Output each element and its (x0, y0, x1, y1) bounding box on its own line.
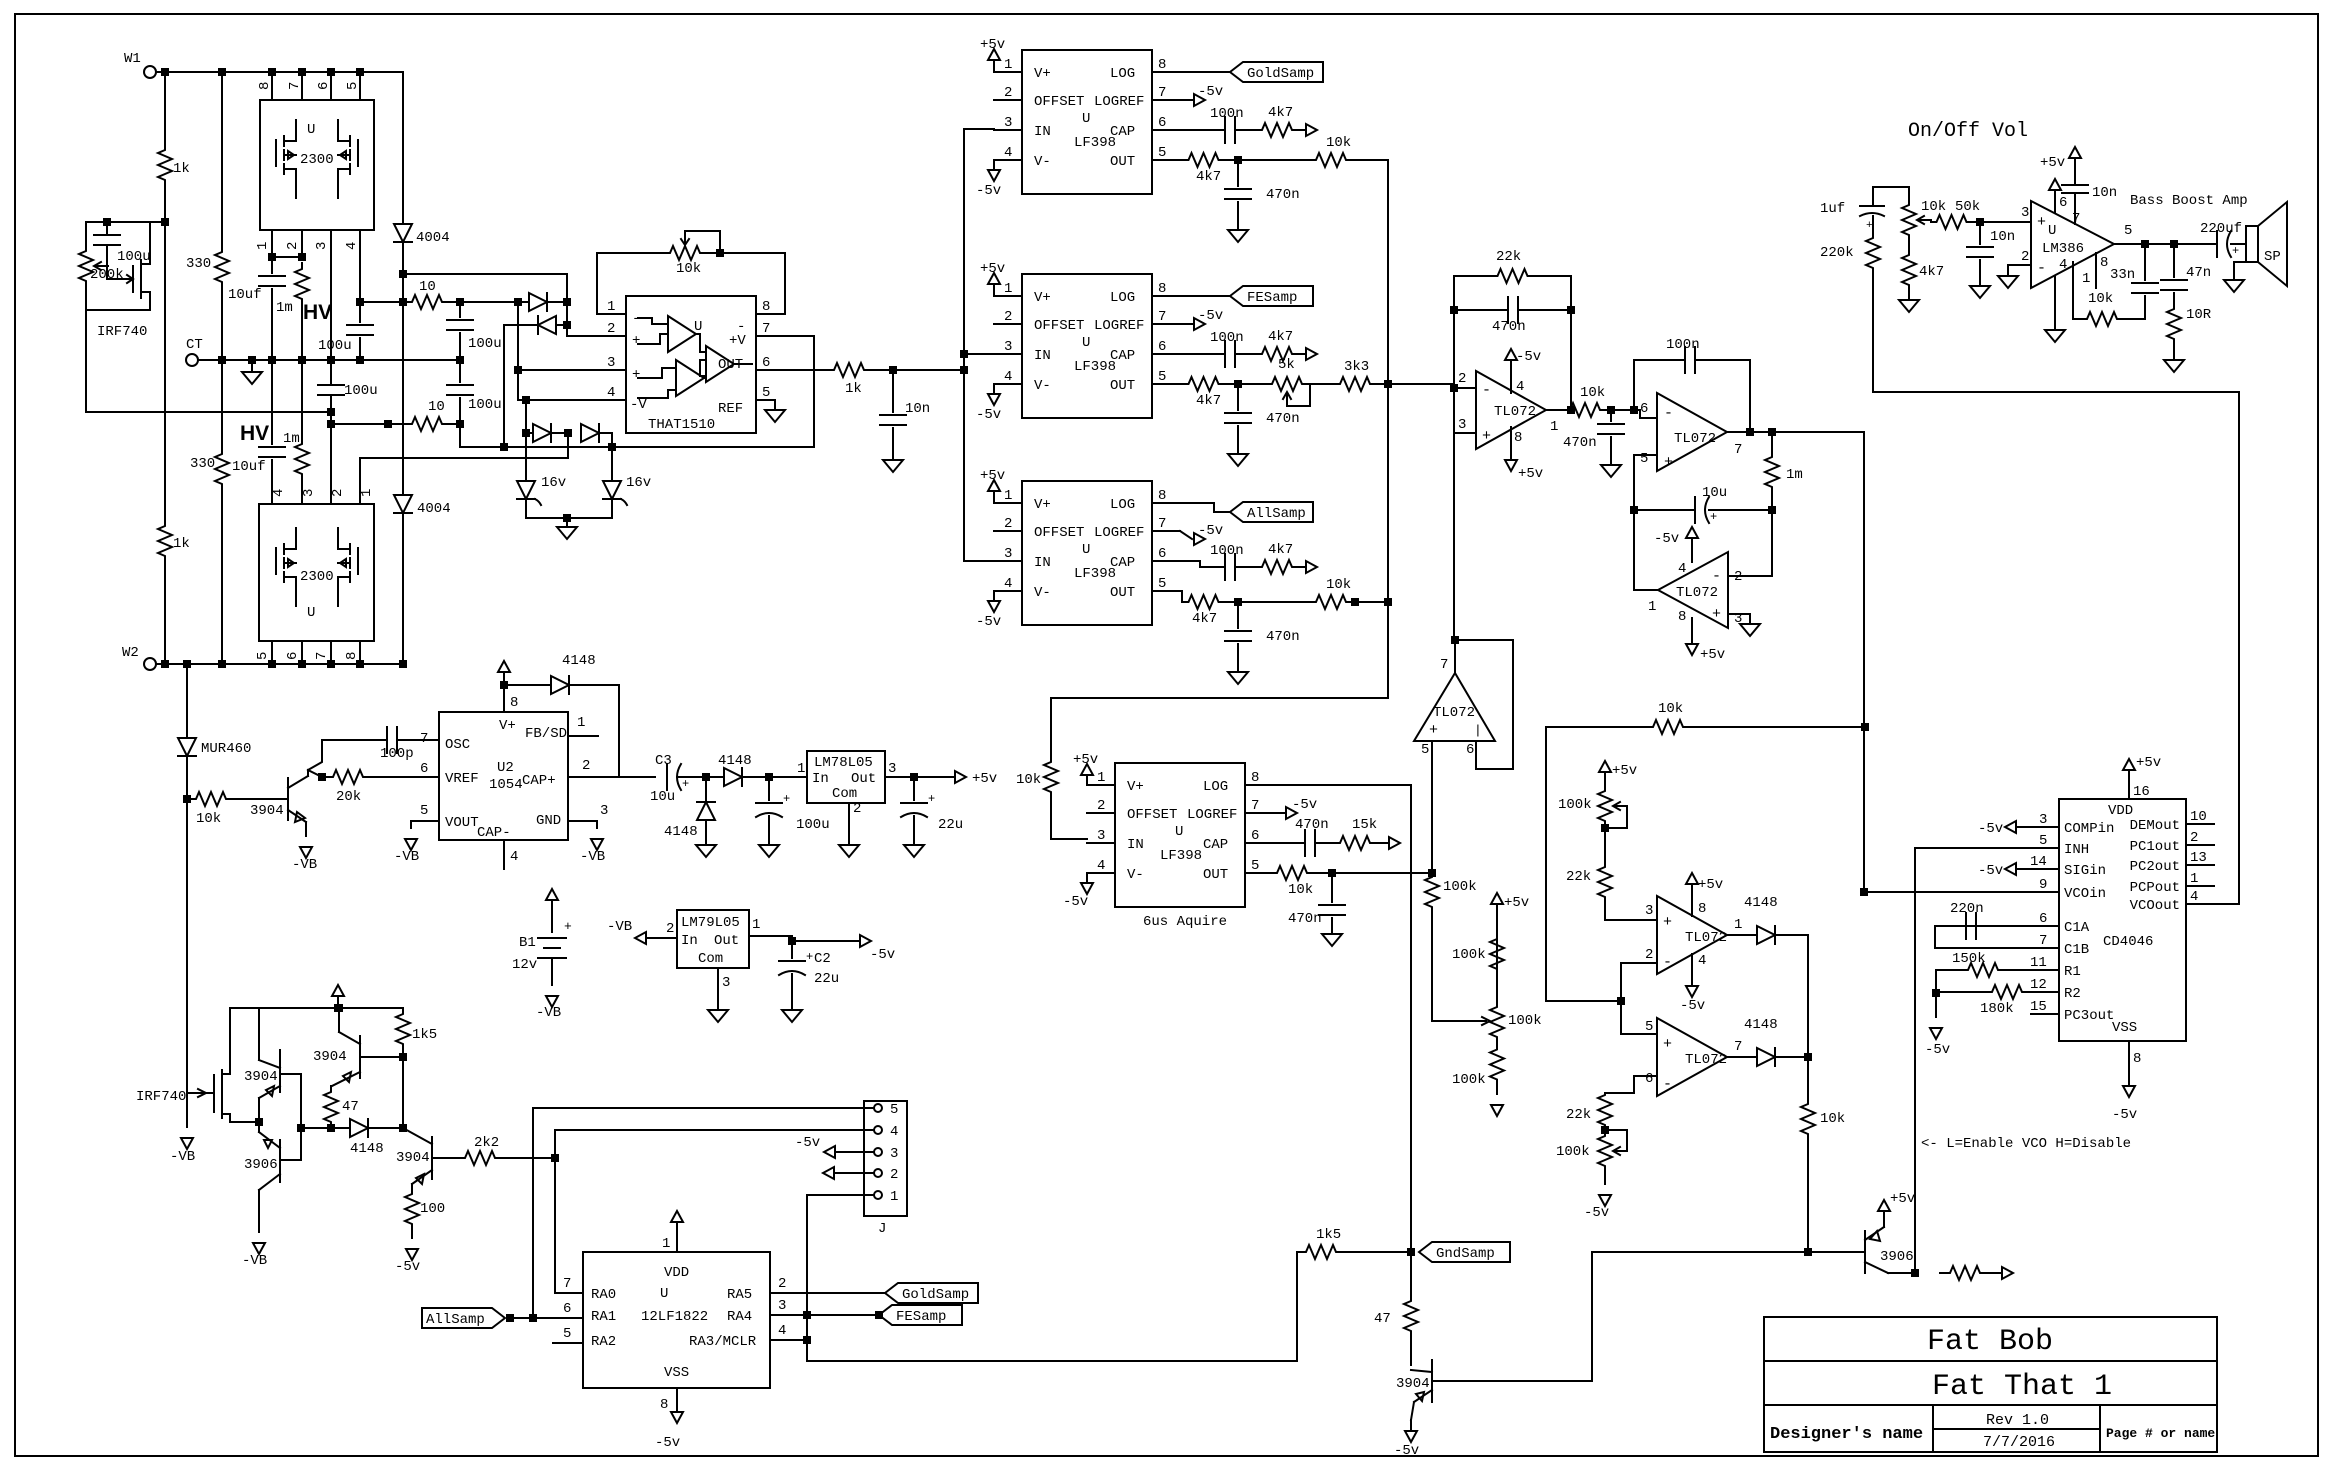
svg-text:5: 5 (420, 803, 428, 819)
wire (331, 1127, 350, 1129)
svg-text:2: 2 (1004, 85, 1012, 101)
wire (1620, 963, 1622, 1034)
wire (251, 360, 253, 372)
ground LM78L05 (839, 845, 859, 857)
svg-text:LOGREF: LOGREF (1094, 318, 1144, 334)
wire (1695, 360, 1750, 432)
diode 4148 clamp (697, 802, 715, 820)
junction (961, 367, 967, 373)
wire (305, 835, 307, 837)
svg-text:OFFSET: OFFSET (1034, 525, 1084, 541)
junction (1235, 381, 1241, 387)
svg-text:47n: 47n (2186, 265, 2211, 281)
svg-text:GoldSamp: GoldSamp (1247, 66, 1314, 82)
wire (330, 396, 332, 504)
wire gate-drive node (86, 221, 165, 223)
wire (526, 499, 612, 518)
capacitor 10u (1694, 497, 1696, 523)
pin6 stub CAP (1152, 560, 1180, 562)
capacitor 220n (1965, 913, 1967, 939)
wire (301, 1127, 331, 1129)
svg-text:+: + (1712, 606, 1721, 623)
junction W1 bus (162, 69, 168, 75)
svg-text:10uf: 10uf (228, 287, 262, 303)
wire (1775, 934, 1808, 936)
pin4 stub V- (994, 383, 1022, 385)
emitter arrow (343, 1072, 351, 1082)
pin 6 C1A (2031, 925, 2059, 927)
svg-text:150k: 150k (1952, 951, 1986, 967)
svg-text:C1A: C1A (2064, 920, 2090, 936)
wire (1807, 1140, 1809, 1252)
wire (742, 776, 807, 778)
wire (567, 433, 569, 458)
-VB arrow (253, 1243, 265, 1254)
potentiometer 5k (1268, 377, 1306, 391)
wire pin2 feed (567, 325, 626, 336)
junction (1805, 1249, 1811, 1255)
svg-text:2: 2 (1004, 516, 1012, 532)
svg-text:B1: B1 (519, 935, 536, 951)
-5v arrow LOGREF (1180, 99, 1192, 101)
resistor 10k #1 (1312, 153, 1350, 167)
title row divider 1 (1764, 1360, 2217, 1362)
svg-text:-5v: -5v (2112, 1107, 2137, 1123)
wire source (230, 1114, 259, 1122)
op-amp U TL072 #3 (1658, 552, 1728, 628)
svg-text:-5v: -5v (976, 183, 1001, 199)
svg-text:10k: 10k (1658, 701, 1683, 717)
junction (564, 299, 570, 305)
wire (1454, 309, 1508, 311)
junction (564, 322, 570, 328)
svg-text:-5v: -5v (655, 1435, 680, 1451)
emitter arrow (1416, 1392, 1424, 1401)
wire (1935, 993, 1937, 1017)
svg-text:22k: 22k (1496, 249, 1521, 265)
title block frame (1764, 1317, 2217, 1452)
svg-text:3: 3 (890, 1146, 898, 1162)
junction (1862, 724, 1868, 730)
pin 2 PC1out (2186, 844, 2214, 846)
svg-text:470n: 470n (1266, 187, 1300, 203)
pin5 stub OUT (1245, 872, 1273, 874)
junction (501, 682, 507, 688)
svg-text:3: 3 (314, 242, 330, 250)
wire (1936, 991, 1986, 993)
op-amp U LM386 (2031, 201, 2114, 288)
pin 11 R1 (2031, 969, 2059, 971)
svg-text:+: + (1664, 454, 1673, 471)
svg-text:Fat That 1: Fat That 1 (1932, 1370, 2112, 1404)
capacitor 220uf (2216, 231, 2218, 257)
svg-text:4: 4 (778, 1323, 786, 1339)
pin5 stub (756, 399, 775, 401)
svg-text:+5v: +5v (980, 37, 1005, 53)
pin 3 COMPin (2031, 826, 2059, 828)
svg-text:7: 7 (287, 82, 303, 90)
pin 15 PC3out (2031, 1013, 2059, 1015)
svg-text:10k: 10k (1016, 772, 1041, 788)
wire (447, 301, 529, 303)
junction (523, 397, 529, 403)
+5v pin8 (1691, 886, 1693, 916)
junction (1329, 870, 1335, 876)
svg-text:10uf: 10uf (232, 459, 266, 475)
pin7 stub (756, 335, 785, 337)
svg-text:1: 1 (359, 489, 375, 497)
wire W1 bus (156, 71, 403, 73)
svg-text:C2: C2 (814, 951, 831, 967)
emitter arrow (416, 1174, 424, 1184)
transistor Q 3906 totem bottom (279, 1140, 281, 1182)
svg-text:1: 1 (1550, 419, 1558, 435)
svg-text:2: 2 (666, 921, 674, 937)
flag FESamp PIC (879, 1305, 962, 1325)
svg-text:-5v: -5v (976, 407, 1001, 423)
svg-text:100k: 100k (1452, 1072, 1486, 1088)
pin stubs 2300 upper top (271, 72, 273, 100)
pin8 stub LOG (1152, 295, 1180, 297)
svg-text:6: 6 (1640, 401, 1648, 417)
wire -in (2008, 264, 2031, 266)
junction CT bus (357, 357, 363, 363)
svg-text:5: 5 (1640, 451, 1648, 467)
junction (703, 774, 709, 780)
pin8 stub LOG (1152, 71, 1180, 73)
svg-text:Fat Bob: Fat Bob (1927, 1325, 2053, 1359)
wire (1235, 129, 1258, 131)
junction (1235, 599, 1241, 605)
potentiometer 100k divider (1490, 1001, 1504, 1043)
transistor Q IRF740 upper (NMOS) (133, 260, 141, 298)
svg-text:+: + (1866, 220, 1873, 232)
resistor 4k7 #1b (1185, 153, 1222, 167)
svg-text:V+: V+ (1034, 497, 1051, 513)
svg-text:100u: 100u (117, 249, 151, 265)
wire base from 3906 line (1432, 1252, 1856, 1381)
wire (1296, 353, 1304, 355)
wire +in down (1633, 455, 1635, 510)
capacitor 100u gate (94, 234, 120, 236)
resistor 10k aquire (1273, 866, 1311, 880)
junction (328, 1125, 334, 1131)
ground 470n #3 (1228, 672, 1248, 684)
wire (2210, 243, 2217, 245)
svg-text:V-: V- (1034, 378, 1051, 394)
junction (2171, 241, 2177, 247)
transistor Q 3906 enable (1864, 1231, 1866, 1273)
IC U 2300 upper (dual MOSFET) (260, 100, 374, 230)
junction (1618, 998, 1624, 1004)
svg-text:+5v: +5v (1518, 466, 1543, 482)
wire driver rail (259, 1007, 403, 1009)
wire (2173, 342, 2175, 360)
svg-text:RA5: RA5 (727, 1287, 752, 1303)
svg-text:1k: 1k (173, 536, 190, 552)
svg-text:5: 5 (255, 652, 271, 660)
wire (504, 325, 538, 447)
svg-text:2k2: 2k2 (474, 1135, 499, 1151)
IC U2 1054 switcher (439, 712, 568, 840)
svg-text:+: + (806, 950, 813, 964)
svg-text:470n: 470n (1266, 411, 1300, 427)
wire W2 bus (156, 663, 403, 665)
svg-text:6: 6 (1251, 828, 1259, 844)
capacitor 100n #3 (1224, 554, 1226, 580)
wire pin1 down (2073, 262, 2083, 319)
svg-text:+: + (682, 777, 689, 791)
wire +V rail lower (460, 424, 612, 447)
+5v arrow (1599, 761, 1611, 772)
svg-text:5: 5 (1158, 145, 1166, 161)
wire (1605, 1076, 1634, 1093)
diode 4148 driver (350, 1119, 368, 1137)
svg-text:-5v: -5v (1063, 894, 1088, 910)
wire (1350, 601, 1388, 603)
wire +in down (1431, 741, 1433, 876)
op-amp U TL072 #5 (1657, 896, 1727, 974)
svg-text:2300: 2300 (300, 152, 334, 168)
svg-text:4k7: 4k7 (1192, 611, 1217, 627)
svg-text:1m: 1m (283, 431, 300, 447)
wire (1180, 591, 1185, 602)
wire (532, 1108, 534, 1318)
wire (1972, 221, 2031, 223)
svg-text:PCPout: PCPout (2130, 880, 2180, 896)
svg-text:U: U (1082, 111, 1090, 127)
wire (1570, 310, 1572, 410)
junction (1451, 307, 1457, 313)
wire (85, 292, 87, 412)
IC U 12LF1822 PIC (583, 1252, 770, 1388)
junction CT bus (299, 357, 305, 363)
wire LOG to flag (1180, 503, 1230, 512)
svg-text:4: 4 (1004, 576, 1012, 592)
svg-text:2: 2 (853, 801, 861, 817)
IC U LF398 sample-hold AllSamp (1022, 481, 1152, 625)
svg-text:VDD: VDD (2108, 803, 2133, 819)
wire to IN (1051, 793, 1087, 839)
capacitor C3 10u (666, 764, 668, 790)
wire (337, 998, 339, 1008)
svg-text:-5v: -5v (1198, 84, 1223, 100)
svg-text:-5v: -5v (1198, 523, 1223, 539)
svg-text:4: 4 (1678, 561, 1686, 577)
wire (1872, 216, 1874, 236)
svg-text:4k7: 4k7 (1268, 329, 1293, 345)
svg-text:R1: R1 (2064, 964, 2081, 980)
wire INH rail (1914, 848, 1916, 1273)
wire (1431, 908, 1433, 1021)
resistor 220k (1866, 236, 1880, 270)
svg-text:3: 3 (1004, 115, 1012, 131)
pin6 stub CAP (1152, 129, 1180, 131)
wire diode join vertical (1807, 935, 1809, 1098)
svg-text:1: 1 (1097, 770, 1105, 786)
resistor 330 upper (215, 246, 229, 288)
svg-text:REF: REF (718, 401, 743, 417)
arrow out (1306, 561, 1317, 573)
wire OUT (785, 369, 830, 371)
pin 9 VCOin (2031, 891, 2059, 893)
svg-text:-VB: -VB (242, 1253, 267, 1269)
wire (301, 305, 303, 360)
svg-text:IRF740: IRF740 (97, 324, 147, 340)
-5v pin4 (1691, 954, 1693, 984)
-5v arrow (1930, 1028, 1942, 1039)
junction (565, 430, 571, 436)
terminal W1 (144, 66, 156, 78)
svg-text:4: 4 (271, 489, 287, 497)
flag AllSamp PIC (422, 1308, 505, 1328)
wire (1050, 698, 1052, 761)
wire -in (1454, 387, 1476, 389)
wire (2231, 243, 2246, 245)
svg-text:8: 8 (1698, 901, 1706, 917)
svg-text:<- L=Enable VCO H=Disable: <- L=Enable VCO H=Disable (1921, 1136, 2131, 1152)
wire (791, 941, 793, 958)
wire (1180, 353, 1225, 355)
pin 1 PCPout (2186, 885, 2214, 887)
capacitor 10uf upper (259, 275, 285, 277)
resistor 1k5 (1302, 1245, 1340, 1259)
pin8 stub LOG (1245, 784, 1273, 786)
svg-text:OUT: OUT (1110, 378, 1135, 394)
svg-text:-: - (1482, 382, 1491, 399)
svg-text:3906: 3906 (244, 1157, 278, 1173)
wire (221, 490, 223, 664)
wire -in (1634, 962, 1657, 964)
capacitor 100u mid upper (347, 324, 373, 326)
resistor 10k pullup (1801, 1098, 1815, 1140)
pin6 stub (756, 369, 785, 371)
junction (1352, 599, 1358, 605)
pin7 stub LOGREF (1245, 812, 1273, 814)
junction (299, 254, 305, 260)
svg-text:SIGin: SIGin (2064, 863, 2106, 879)
junction (319, 774, 325, 780)
wire (1634, 509, 1695, 511)
emitter arrow (266, 1086, 274, 1096)
svg-text:10k: 10k (2088, 291, 2113, 307)
svg-text:7: 7 (1158, 309, 1166, 325)
capacitor 100n #1 (1224, 117, 1226, 143)
junction CT bus (249, 357, 255, 363)
ground pin4 (2045, 330, 2065, 342)
pin 14 SIGin (2031, 868, 2059, 870)
wire (1696, 726, 1865, 728)
IC U 2300 lower (dual MOSFET) (259, 504, 374, 641)
svg-text:-5v: -5v (1654, 531, 1679, 547)
wire pin1 col lower (359, 458, 361, 504)
wire (2173, 293, 2175, 306)
wire HV top link (403, 274, 567, 325)
wire (551, 432, 568, 434)
wire (868, 369, 964, 371)
svg-text:10k: 10k (1326, 577, 1351, 593)
ground 10n in (1970, 286, 1990, 298)
wire (330, 1085, 332, 1087)
wire (705, 820, 707, 845)
svg-text:1m: 1m (276, 300, 293, 316)
svg-text:8: 8 (1158, 281, 1166, 297)
junction (507, 1315, 513, 1321)
REF ground (774, 400, 776, 410)
wire +in (1621, 1033, 1657, 1035)
junction (1385, 599, 1391, 605)
svg-text:OFFSET: OFFSET (1034, 94, 1084, 110)
svg-text:22k: 22k (1566, 1107, 1591, 1123)
wire (411, 1228, 413, 1238)
svg-text:-V: -V (630, 397, 647, 413)
wire (1771, 494, 1773, 510)
svg-text:22u: 22u (938, 817, 963, 833)
svg-text:V-: V- (1127, 867, 1144, 883)
svg-text:4148: 4148 (718, 753, 752, 769)
+5v arrow (1491, 893, 1503, 904)
svg-text:6: 6 (420, 761, 428, 777)
capacitor 100n #2 (1224, 341, 1226, 367)
junction (1631, 507, 1637, 513)
pin3 stub IN (994, 353, 1022, 355)
svg-text:10: 10 (2190, 809, 2207, 825)
wire 1uf top loop (1873, 187, 1909, 206)
svg-text:1054: 1054 (489, 777, 523, 793)
wire drain (149, 222, 151, 264)
junction (269, 254, 275, 260)
wire output (1546, 409, 1570, 411)
-5v arrow (2123, 1086, 2135, 1097)
junction (523, 430, 529, 436)
wire (596, 821, 598, 828)
terminal CT (186, 354, 198, 366)
svg-text:LOGREF: LOGREF (1187, 807, 1237, 823)
svg-text:-5v: -5v (870, 947, 895, 963)
svg-text:+: + (1429, 722, 1438, 739)
svg-text:+: + (632, 333, 640, 349)
title col divider 1 (1932, 1405, 1934, 1452)
junction CT bus (269, 357, 275, 363)
svg-text:6us Aquire: 6us Aquire (1143, 914, 1227, 930)
junction (789, 938, 795, 944)
resistor 47 driver (324, 1086, 338, 1128)
svg-text:1: 1 (2190, 871, 2198, 887)
wire (397, 739, 439, 741)
svg-text:4: 4 (1516, 379, 1524, 395)
pin 2 J (874, 1169, 882, 1177)
svg-text:THAT1510: THAT1510 (648, 417, 715, 433)
svg-text:8: 8 (1514, 430, 1522, 446)
svg-text:U2: U2 (497, 760, 514, 776)
capacitor 10uf lower (259, 446, 285, 448)
wire (1222, 159, 1312, 161)
svg-text:33n: 33n (2110, 267, 2135, 283)
transistor Q 3904 totem top (279, 1050, 281, 1092)
arrow (823, 1167, 834, 1179)
svg-text:V+: V+ (1127, 779, 1144, 795)
wire (1237, 202, 1239, 230)
junction (552, 1155, 558, 1161)
+5v pin8 (1691, 618, 1693, 642)
-5v arrow (824, 1146, 835, 1158)
svg-text:MUR460: MUR460 (201, 741, 251, 757)
wire (2006, 969, 2031, 971)
svg-text:3904: 3904 (1396, 1376, 1430, 1392)
wire (749, 936, 858, 941)
wire pin4 (2054, 276, 2056, 330)
wire (402, 242, 404, 495)
